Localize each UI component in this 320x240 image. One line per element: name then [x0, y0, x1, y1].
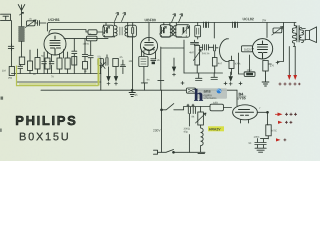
svg-text:0.027: 0.027 — [244, 48, 252, 52]
IF1 can box right — [128, 25, 137, 37]
IF2 primary coil — [170, 23, 173, 38]
capacitor C22 — [158, 47, 164, 90]
coupling cap C23 — [214, 45, 216, 51]
svg-text:180: 180 — [213, 101, 218, 105]
svg-text:45μ: 45μ — [183, 130, 188, 134]
power section — [131, 89, 271, 154]
IF2 trimmer cap C19 — [160, 23, 163, 37]
heater arrow H2 — [115, 67, 117, 77]
volume pot R7 — [195, 46, 200, 66]
svg-text:100n: 100n — [253, 135, 259, 139]
resistor R23 — [72, 57, 77, 66]
antenna socket box J1 — [1, 14, 11, 20]
wire C50 to mains — [188, 114, 190, 153]
capacitor C15b — [206, 45, 208, 51]
T1 primary wires — [293, 23, 295, 47]
scan speck left 2 — [0, 129, 2, 132]
decoupling cap C24 — [151, 59, 156, 61]
electrolytic C50 — [187, 104, 191, 113]
plus marks agc — [181, 82, 242, 85]
tube UY85 envelope — [233, 105, 258, 120]
IF1 primary coil — [114, 23, 117, 38]
svg-text:UCL82: UCL82 — [242, 17, 253, 21]
svg-text:4M7: 4M7 — [189, 50, 195, 54]
resistor R21 NTC — [266, 125, 271, 136]
svg-text:170: 170 — [270, 64, 275, 68]
wire J1 down to bus — [11, 21, 13, 67]
bus chassis left — [12, 73, 101, 75]
tube UCL82 envelope — [252, 39, 272, 59]
antenna trim arrow — [20, 12, 24, 15]
capacitor C11 plate — [141, 51, 147, 91]
svg-text:UCH81: UCH81 — [48, 18, 60, 22]
IF1 core arrows — [120, 27, 122, 35]
wire bus drop — [100, 58, 102, 90]
UY85 output wire — [257, 112, 267, 124]
IF2 bottom wire — [161, 36, 181, 38]
watermark globe — [217, 89, 222, 94]
junction dots — [173, 151, 175, 153]
heater arrow H3 — [173, 58, 175, 67]
IF1 tuning arrows — [115, 12, 119, 21]
scan speck left 1 — [1, 97, 4, 100]
electrolytic C51 — [192, 104, 195, 113]
svg-text:PHILIPS: PHILIPS — [15, 113, 77, 128]
resistor R3 — [57, 58, 62, 69]
grid cap C14 — [191, 40, 199, 45]
capacitor C8 — [120, 67, 125, 74]
IF1 right cap C10 — [132, 23, 134, 91]
svg-text:1M: 1M — [2, 69, 6, 73]
wire if2 secondary down — [183, 40, 185, 73]
antenna coil L2 windings — [19, 27, 24, 41]
IF2 can box left — [160, 25, 171, 38]
svg-text:45: 45 — [134, 93, 138, 97]
resistor R13 — [244, 72, 255, 77]
wire det — [155, 57, 157, 60]
capacitor C4 — [72, 39, 77, 74]
det trimmer cap C20 — [183, 27, 185, 33]
R40 dropper pot — [198, 112, 204, 125]
det coil L5 box — [195, 26, 201, 37]
resistor R22 — [29, 50, 31, 61]
capacitor C16 — [196, 73, 202, 81]
antenna A1 — [18, 5, 25, 27]
plus marks right of A3 — [285, 113, 297, 116]
red annotation line V2 — [294, 47, 296, 76]
IF2 secondary coil — [174, 23, 177, 38]
watermark backing — [196, 88, 227, 99]
wire AVC rail — [17, 81, 101, 83]
bus lower — [41, 89, 237, 91]
coil L3 box — [19, 57, 24, 65]
coil L1 adjustable box — [27, 21, 36, 26]
agc rail caps — [184, 72, 223, 74]
wire UCL82 top — [266, 23, 268, 38]
resistor R5 — [87, 36, 98, 41]
capacitor C15a — [203, 45, 205, 51]
wire af row — [200, 46, 218, 49]
mains plug prongs — [154, 150, 158, 154]
resistor R1 — [9, 67, 14, 76]
IF1 secondary coil — [125, 23, 128, 38]
IF1 trimmer cap C9 — [104, 23, 106, 37]
svg-text:2W: 2W — [262, 18, 267, 22]
resistor R12 — [263, 61, 268, 72]
wire grid return — [239, 53, 245, 74]
red arrow A4 — [278, 121, 283, 124]
UBF80 pin wires — [142, 23, 156, 59]
red annotation line V1 — [288, 47, 290, 76]
resistor R4 — [65, 58, 70, 69]
resistor R11 feedback — [273, 28, 282, 33]
wire ht vertical — [278, 23, 284, 62]
fuse F1 box — [186, 88, 195, 93]
if filter box Z1 — [139, 57, 148, 67]
shielded af cable arc — [219, 39, 226, 62]
svg-text:schematics: schematics — [203, 96, 217, 100]
wire af vertical — [213, 23, 215, 39]
plus mark — [276, 61, 279, 64]
wire top rail — [49, 22, 296, 24]
red arrow A3 — [278, 113, 283, 117]
zigzag bottom terminal — [198, 153, 205, 155]
wire mains bottom — [158, 149, 206, 152]
heater arrow H1 — [108, 67, 110, 77]
wire mains drop — [162, 90, 238, 152]
wire osc — [100, 66, 102, 74]
resistor R8 — [212, 58, 217, 67]
svg-text:230V: 230V — [153, 129, 161, 133]
wire grid rail — [49, 30, 88, 34]
tube UBF80 envelope — [140, 37, 157, 54]
svg-text:470k: 470k — [235, 62, 241, 66]
UY85 electrodes — [236, 110, 254, 116]
UBF80 electrodes — [145, 39, 153, 55]
resistor R20 box — [210, 104, 224, 111]
output transformer T1 — [292, 26, 296, 44]
svg-text:1M: 1M — [128, 59, 132, 63]
IF1 can box left — [103, 25, 114, 37]
ground G1 — [129, 90, 135, 96]
IF2 can box right — [176, 25, 190, 38]
UCH81 electrodes — [50, 36, 61, 55]
osc switch cross — [101, 63, 106, 69]
IF2 tuning arrows — [172, 14, 176, 23]
svg-text:4n7: 4n7 — [218, 61, 223, 65]
padder C6 — [106, 55, 108, 66]
red arrow A5 — [276, 138, 281, 141]
capacitor C2 — [18, 65, 23, 74]
heater arrow H4 — [230, 72, 232, 77]
capacitor C13 — [233, 22, 238, 28]
red arrow V2 head — [293, 75, 297, 80]
wire screen rail — [64, 38, 108, 40]
heater dropper zigzag — [201, 125, 204, 149]
capacitor C18 — [42, 52, 47, 74]
UCL82 cathode wire — [244, 55, 255, 72]
capacitor C1 — [36, 21, 47, 26]
capacitor C3 — [49, 60, 54, 74]
UCH81 pin wires — [48, 50, 64, 61]
UY85 pins — [241, 119, 249, 123]
ground G2 — [262, 71, 269, 86]
resistor R9 — [229, 61, 234, 69]
svg-text:h: h — [194, 86, 204, 105]
capacitor C5 — [88, 41, 93, 74]
resistor R2 — [45, 58, 50, 69]
svg-text:HRA2V: HRA2V — [209, 127, 221, 131]
yellow highlight label — [208, 126, 224, 131]
tube UCH81 envelope — [44, 33, 66, 55]
wire L2 down — [21, 42, 23, 58]
svg-text:25n: 25n — [8, 77, 13, 80]
UCL82 electrodes — [258, 41, 268, 59]
svg-text:1k1W: 1k1W — [82, 43, 89, 46]
svg-text:NTC: NTC — [271, 129, 276, 133]
wire det rail — [161, 47, 184, 49]
smoothing caps C52 C53 — [255, 139, 268, 148]
svg-text:R52: R52 — [247, 68, 252, 72]
capacitor C17 — [211, 73, 217, 80]
svg-text:UBF80: UBF80 — [144, 18, 155, 22]
mains switch S1 — [162, 104, 211, 110]
osc grid resistor R24 — [88, 30, 97, 35]
capacitor C7 — [113, 59, 119, 67]
osc coil L6 — [37, 49, 39, 58]
plus marks under red arrows — [279, 83, 301, 86]
svg-text:B0X15U: B0X15U — [19, 131, 70, 143]
IF1 bottom wire — [105, 36, 135, 38]
red arrow V1 head — [287, 75, 291, 80]
paper grain — [0, 0, 320, 161]
svg-text:UY85: UY85 — [237, 96, 246, 100]
olive wire loop — [17, 58, 99, 86]
screen divider column — [82, 39, 87, 62]
capacitor C12 — [204, 22, 209, 28]
capacitor C21 — [8, 44, 14, 51]
osc coil L4 — [98, 59, 104, 66]
wire top rail left corner down — [47, 23, 49, 32]
speaker LS1 — [302, 27, 317, 43]
UCL82 grid box R10 — [242, 46, 253, 52]
